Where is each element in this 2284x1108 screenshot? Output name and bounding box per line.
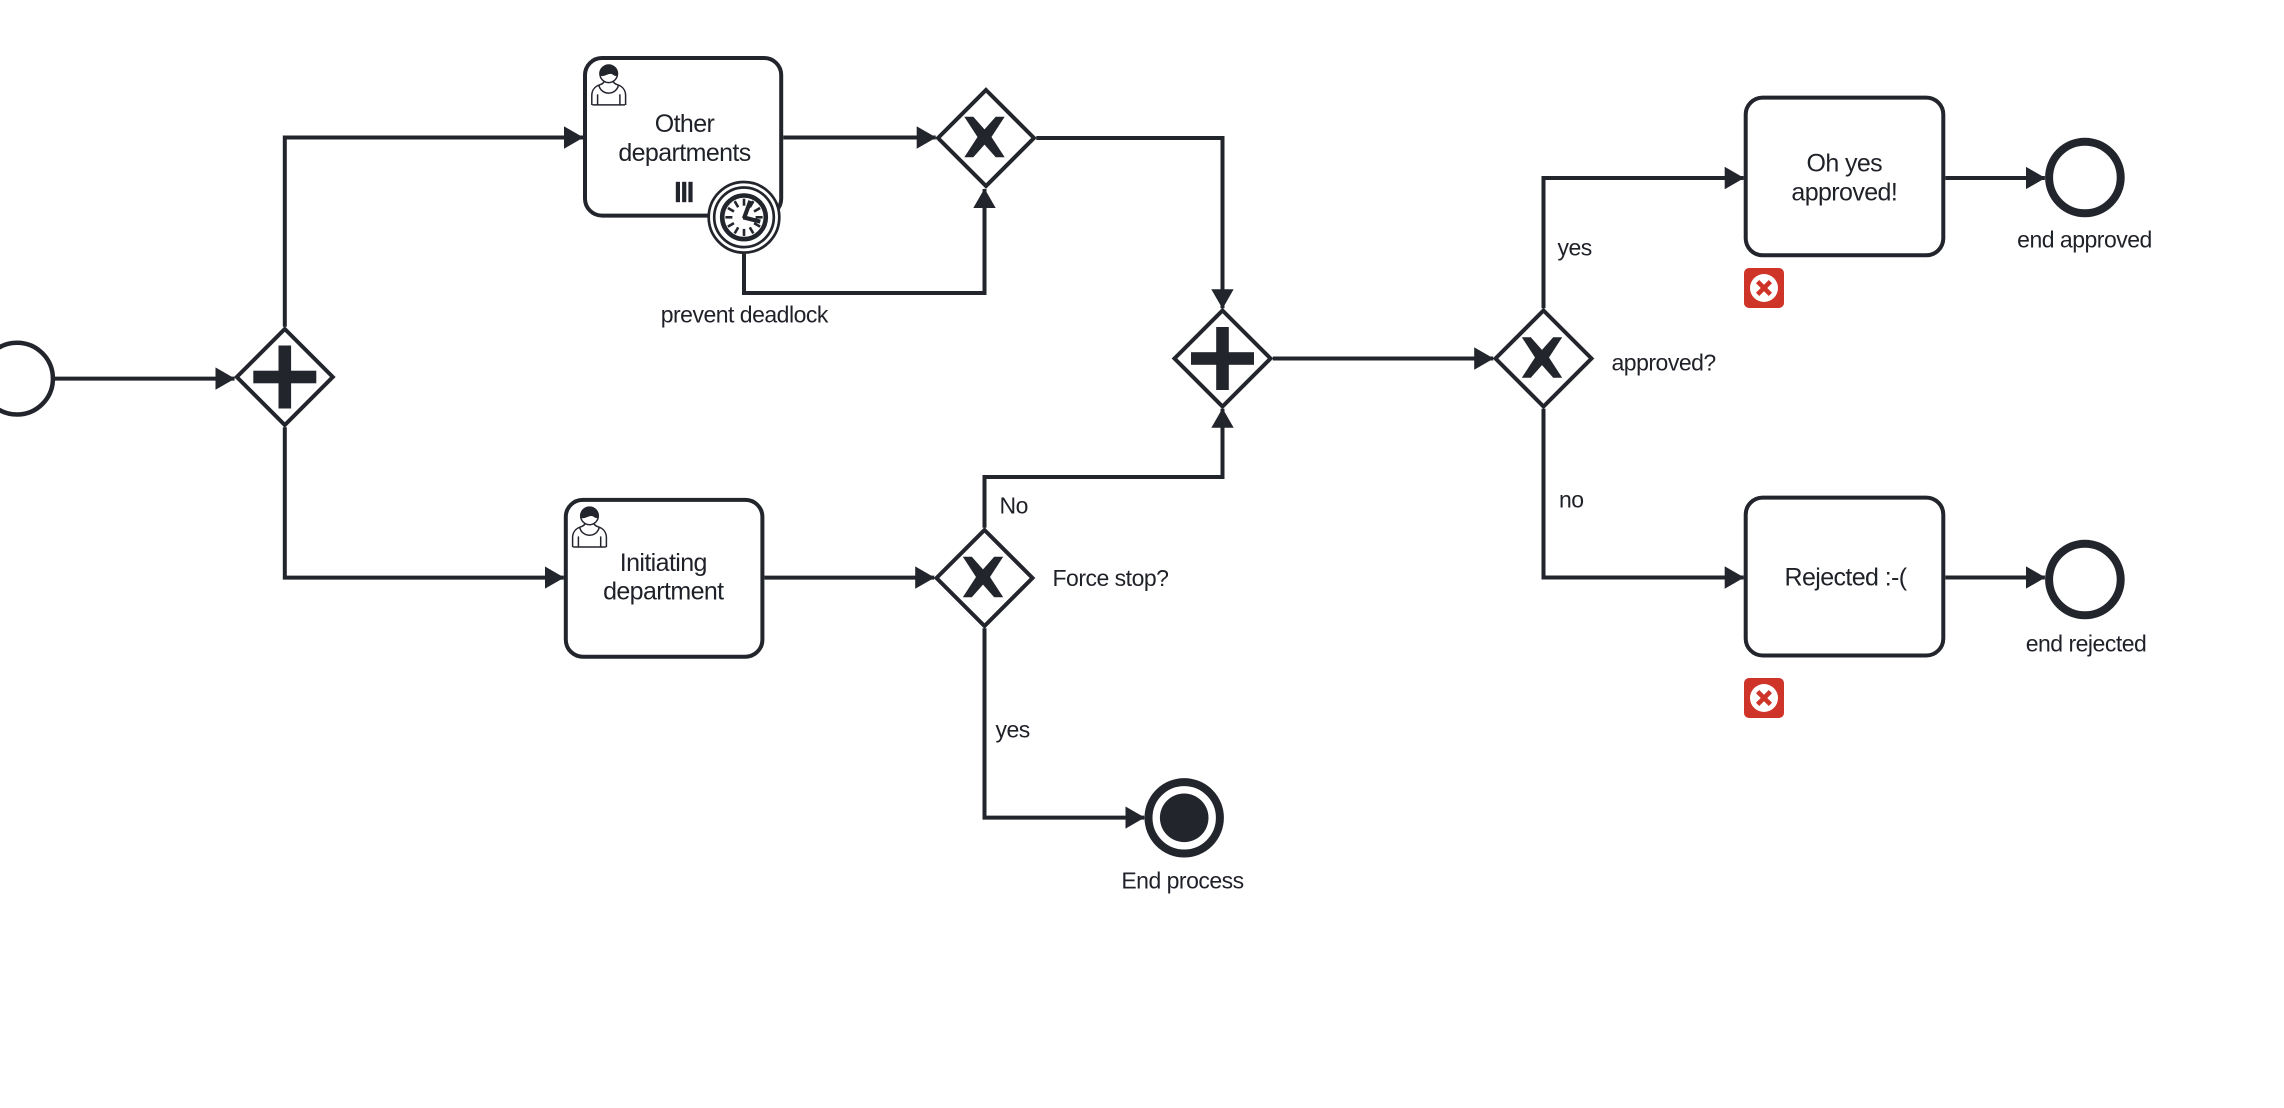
svg-text:yes: yes [996,717,1030,743]
svg-text:end approved: end approved [2017,227,2152,253]
terminate end event End process [1149,782,1220,853]
svg-text:yes: yes [1558,235,1592,261]
svg-text:no: no [1559,487,1584,513]
terminate marker disc [1160,794,1209,843]
flow timer -> xor merge (prevent deadlock loop) [744,189,985,293]
flow Other departments -> xor merge [783,136,936,140]
end event approved [2049,142,2121,214]
start event [0,343,53,415]
svg-text:departments: departments [618,139,750,167]
end event rejected [2049,544,2121,616]
svg-text:prevent deadlock: prevent deadlock [661,302,829,328]
xor merge gateway (after Other departments) [938,90,1034,186]
timer boundary event [708,181,781,254]
task Initiating department [566,500,763,657]
svg-text:Force stop?: Force stop? [1053,565,1169,591]
svg-text:approved!: approved! [1791,179,1897,207]
flow Initiating department -> Force stop? [764,576,934,580]
flow split gateway -> Other departments [285,138,583,327]
xor gateway approved? [1496,311,1592,407]
task Other departments [585,58,781,216]
svg-text:End process: End process [1121,868,1243,894]
flow Force stop (No) -> parallel join [985,409,1223,528]
parallel join gateway [1175,311,1271,407]
flow approved? no -> Rejected [1544,409,1744,578]
flow approved? yes -> Oh yes approved [1544,178,1744,308]
parallel split gateway [237,329,333,425]
svg-text:Initiating: Initiating [620,549,707,577]
error marker (rejected task) [1744,678,1784,718]
error marker (approved task) [1744,268,1784,308]
flow xor merge -> parallel join [1036,138,1222,308]
multi-instance marker III [676,182,693,202]
flow start -> split gateway [54,377,235,381]
xor gateway Force stop? [937,530,1033,626]
svg-text:Rejected :-(: Rejected :-( [1784,563,1907,591]
flow split gateway -> Initiating department [285,427,564,577]
task Oh yes approved [1746,98,1944,256]
task Rejected [1746,498,1944,656]
flow Rejected -> end rejected [1945,576,2045,580]
user icon (Initiating department) [573,507,607,547]
flow Force stop yes -> End process [985,628,1145,817]
svg-text:No: No [1000,493,1028,519]
flow Oh yes approved -> end approved [1945,176,2045,180]
user icon (Other departments) [592,65,626,105]
flow parallel join -> approved? [1273,357,1493,361]
svg-text:approved?: approved? [1612,350,1716,376]
svg-text:Other: Other [655,110,715,138]
svg-text:department: department [603,577,724,605]
svg-text:end rejected: end rejected [2026,630,2147,656]
svg-text:Oh yes: Oh yes [1806,149,1882,177]
